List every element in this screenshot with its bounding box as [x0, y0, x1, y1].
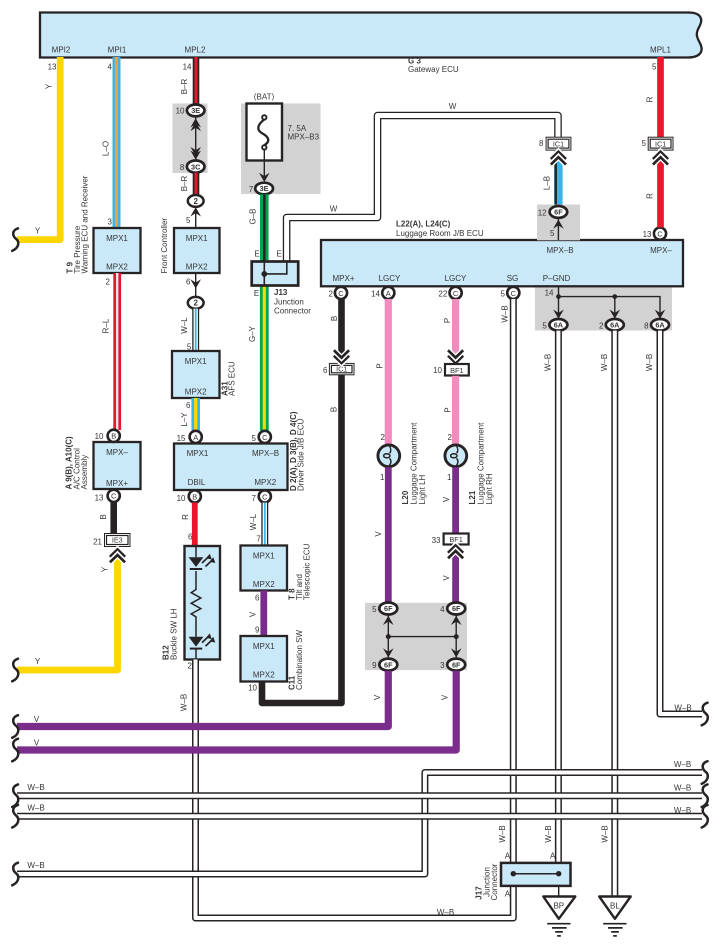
svg-text:L–O: L–O [102, 141, 111, 156]
svg-text:P: P [376, 363, 385, 368]
wire R from MPL1 pin 5 to IC1 pin 5 [645, 57, 660, 138]
svg-text:W–B: W–B [601, 825, 610, 842]
svg-text:MPX2: MPX2 [253, 580, 275, 589]
wire W-B from 6A pin 5 to J17 [544, 331, 559, 863]
svg-text:BP: BP [553, 902, 564, 911]
svg-text:MPI2: MPI2 [52, 46, 71, 55]
svg-text:2: 2 [188, 662, 193, 671]
wire V from BF1 pin 33 to 6F pin 4 [442, 545, 463, 603]
svg-text:6F: 6F [384, 660, 393, 669]
svg-text:MPX1: MPX1 [253, 552, 275, 561]
svg-text:2: 2 [106, 278, 111, 287]
pin 10 B of A/C assembly [95, 430, 120, 442]
svg-text:⟨BAT⟩: ⟨BAT⟩ [253, 93, 274, 102]
svg-text:21: 21 [93, 538, 102, 547]
svg-text:B: B [192, 492, 197, 501]
ECU A9/A10 A/C Control Assembly [65, 436, 141, 490]
svg-text:C: C [262, 433, 268, 442]
svg-text:3E: 3E [191, 106, 200, 115]
svg-text:10: 10 [248, 684, 257, 693]
svg-text:10: 10 [177, 494, 186, 503]
wire W-B elbow to right and left breaks [12, 760, 708, 885]
svg-text:5: 5 [550, 229, 555, 238]
svg-text:V: V [374, 531, 383, 537]
wire Y from IE3 to left break [12, 549, 124, 681]
svg-text:MPX1: MPX1 [187, 449, 209, 458]
svg-text:3: 3 [440, 661, 445, 670]
wire W from J13 to IC1 pin 8 [287, 102, 558, 262]
ECU A31 AFS ECU [172, 351, 237, 398]
ECU T8 Tilt and Telescopic ECU [241, 543, 312, 600]
svg-text:AFS ECU: AFS ECU [228, 361, 237, 396]
svg-text:10: 10 [176, 107, 185, 116]
svg-text:IE3: IE3 [112, 536, 123, 545]
svg-text:W–B: W–B [674, 784, 691, 793]
svg-text:W: W [330, 205, 338, 214]
svg-text:4: 4 [440, 605, 445, 614]
svg-text:14: 14 [183, 63, 192, 72]
switch C11 Combination SW [241, 630, 305, 690]
svg-text:MPX–: MPX– [106, 448, 128, 457]
wire W-B from 6A pin 2 to ground BL [600, 331, 615, 897]
svg-text:5: 5 [372, 605, 377, 614]
svg-text:BF1: BF1 [450, 366, 464, 375]
svg-text:MPX+: MPX+ [106, 479, 128, 488]
svg-text:SG: SG [507, 274, 519, 283]
link with arrows between 3E and 3C [190, 117, 201, 160]
svg-text:V: V [442, 496, 451, 502]
svg-text:MPX1: MPX1 [106, 234, 128, 243]
svg-text:6: 6 [186, 278, 191, 287]
svg-text:MPX2: MPX2 [186, 263, 208, 272]
svg-text:A: A [505, 890, 511, 899]
wire B-R from 3C to circle 2 [180, 173, 196, 196]
connector 6A pin 2 [599, 319, 624, 331]
svg-text:14: 14 [545, 289, 554, 298]
svg-text:5: 5 [252, 434, 257, 443]
svg-text:BL: BL [610, 902, 620, 911]
svg-text:2: 2 [599, 322, 604, 331]
svg-text:W–B: W–B [437, 908, 454, 917]
svg-text:6: 6 [186, 401, 191, 410]
svg-text:Gateway ECU: Gateway ECU [408, 65, 459, 74]
junction block 6F gray panel [365, 603, 467, 670]
svg-text:Connector: Connector [274, 307, 311, 316]
svg-text:E: E [254, 289, 259, 298]
svg-text:W: W [449, 102, 457, 111]
svg-text:W–B: W–B [645, 354, 654, 371]
svg-text:MPI1: MPI1 [108, 46, 127, 55]
connector 3E pin 10 [176, 105, 205, 117]
svg-text:R: R [645, 96, 654, 102]
wire P from LGCY pin 14 to lamp L20 [376, 299, 389, 444]
wire R from IC1 pin 5 to Luggage pin 13 [645, 151, 667, 228]
link from Front Controller pin 6 to circle 2 lower [186, 273, 201, 296]
svg-text:W–L: W–L [249, 513, 258, 530]
svg-text:W–B: W–B [544, 354, 553, 371]
svg-text:L–B: L–B [542, 176, 551, 190]
ECU T9 Tire Pressure Warning ECU and Receiver [66, 175, 141, 273]
svg-text:IC1: IC1 [553, 139, 564, 148]
ECU D2/D3/D4 Driver Side J/B ECU [174, 411, 306, 491]
wire W-B from 6A pin 8 to right break [645, 331, 708, 726]
svg-text:C: C [262, 492, 268, 501]
wire R from DBIL pin 10 to Buckle SW [181, 503, 195, 547]
svg-text:2: 2 [448, 433, 453, 442]
svg-text:3E: 3E [260, 184, 269, 193]
svg-text:MPX1: MPX1 [186, 234, 208, 243]
wire G-B from 3E to J13 [248, 194, 264, 262]
svg-text:W–B: W–B [674, 760, 691, 769]
svg-text:1: 1 [447, 473, 452, 482]
svg-text:6: 6 [323, 366, 328, 375]
connector IC1 pin 6 [323, 363, 354, 375]
wire B-R from MPL2 pin 14 to connector 3E [180, 57, 196, 105]
link 6F pin 12 to Luggage MPX-B pin 5 [550, 218, 564, 240]
svg-text:A: A [193, 433, 198, 442]
connector 6A pin 5 [542, 319, 567, 331]
svg-text:L–Y: L–Y [180, 412, 189, 427]
svg-text:Connector: Connector [490, 863, 499, 900]
svg-text:L22(A), L24(C): L22(A), L24(C) [396, 220, 451, 229]
svg-text:9: 9 [372, 661, 377, 670]
wire V from 6F pin 9 to left break [12, 671, 388, 738]
svg-text:W–B: W–B [179, 694, 188, 711]
svg-text:2: 2 [193, 299, 198, 308]
svg-text:W–B: W–B [674, 806, 691, 815]
svg-text:MPX–B3: MPX–B3 [288, 133, 320, 142]
wire V from T8 pin 6 to C11 pin 9 [249, 591, 264, 637]
svg-text:Light LH: Light LH [418, 474, 427, 504]
pin 22 C Luggage LGCY [438, 287, 461, 299]
svg-text:V: V [34, 739, 40, 748]
svg-text:C: C [453, 289, 459, 298]
svg-text:MPX+: MPX+ [332, 274, 354, 283]
connector IC1 pin 8 [539, 137, 571, 150]
wire L-O from MPI1 pin 4 to T9 [102, 57, 117, 228]
P-GND link from pin 14 to 6A connectors [545, 286, 666, 319]
wire L-B from 6F pin 12 to IC1 pin 8 [542, 151, 565, 206]
connector 3E pin 7 [249, 183, 273, 195]
pin 13 C of A/C assembly [95, 490, 120, 503]
svg-text:5: 5 [652, 63, 657, 72]
svg-text:V: V [442, 575, 451, 581]
fuse MPX-B3 7.5A [247, 93, 320, 161]
svg-text:Light RH: Light RH [485, 473, 494, 504]
ground BL [599, 897, 631, 936]
svg-text:W–B: W–B [501, 305, 510, 322]
wire W-L from MPX2 pin 7 to Tilt ECU [249, 503, 265, 546]
svg-text:V: V [441, 694, 450, 700]
svg-text:B–R: B–R [180, 175, 189, 191]
svg-text:G–Y: G–Y [248, 325, 257, 342]
connector 6F pin 3 [440, 659, 465, 671]
svg-text:B–R: B–R [180, 78, 189, 94]
svg-text:P: P [443, 318, 452, 323]
svg-text:W–L: W–L [180, 317, 189, 334]
svg-text:7: 7 [249, 185, 254, 194]
connector 6F pin 9 [372, 659, 397, 671]
svg-text:6A: 6A [610, 321, 620, 330]
svg-text:W–B: W–B [544, 825, 553, 842]
svg-text:Y: Y [35, 227, 41, 236]
svg-text:5: 5 [501, 290, 506, 299]
lamp L20 Luggage Compartment Light LH [378, 422, 427, 505]
wire W-B from Buckle SW pin 2 to J17 [179, 660, 513, 919]
wire W-B full width upper [12, 783, 708, 807]
connector 6F pin 12 [538, 206, 568, 218]
svg-text:B: B [329, 407, 338, 412]
svg-text:MPX–B: MPX–B [252, 449, 279, 458]
connector IC1 pin 5 [642, 137, 673, 150]
svg-text:Assembly: Assembly [80, 455, 89, 490]
svg-text:13: 13 [48, 63, 57, 72]
pin 7 C of Driver Side J/B ECU [252, 490, 271, 503]
svg-text:A: A [386, 289, 391, 298]
svg-text:13: 13 [643, 230, 652, 239]
svg-text:33: 33 [432, 536, 441, 545]
ECU G3 Gateway top bus bar [40, 13, 702, 75]
wire Y from MPI2 pin 13 to left break [12, 57, 60, 251]
svg-text:6A: 6A [554, 321, 564, 330]
svg-text:MPX2: MPX2 [106, 263, 128, 272]
svg-text:C: C [657, 230, 663, 239]
svg-text:8: 8 [644, 322, 649, 331]
connector 6F pin 4 [440, 603, 465, 615]
svg-text:1: 1 [380, 473, 385, 482]
svg-text:8: 8 [539, 139, 544, 148]
wire B from A/C pin 13 to IE3 [99, 502, 114, 534]
svg-text:W–B: W–B [600, 354, 609, 371]
svg-text:DBIL: DBIL [188, 478, 206, 487]
svg-text:MPX2: MPX2 [185, 388, 207, 397]
svg-text:B: B [330, 316, 339, 321]
6F internal links with arrows and junction dots [383, 615, 462, 659]
link from fuse to connector 3E pin 7 [259, 150, 270, 183]
connector 6F pin 5 [372, 603, 397, 615]
pin 2 C Luggage MPX+ [329, 287, 348, 299]
svg-text:9: 9 [255, 626, 260, 635]
svg-text:Warning ECU and Receiver: Warning ECU and Receiver [81, 175, 90, 273]
svg-text:MPX1: MPX1 [185, 357, 207, 366]
svg-text:15: 15 [177, 434, 186, 443]
svg-text:W–B: W–B [27, 861, 44, 870]
connector 6F pin 12 gray panel [537, 205, 580, 241]
svg-text:10: 10 [95, 432, 104, 441]
pin 15 A of Driver Side J/B ECU [177, 431, 202, 443]
wire G-Y from J13 to Driver J/B pin 5 [248, 286, 264, 431]
svg-text:2: 2 [381, 433, 386, 442]
svg-text:W–B: W–B [27, 783, 44, 792]
svg-text:Y: Y [101, 566, 110, 572]
svg-text:4: 4 [108, 63, 113, 72]
wire V from 6F pin 3 to left break [12, 671, 456, 762]
svg-text:6: 6 [255, 594, 260, 603]
svg-text:R: R [181, 514, 190, 520]
svg-text:2: 2 [193, 197, 198, 206]
pin 10 B of Driver Side J/B ECU [177, 490, 201, 503]
svg-text:MPX2: MPX2 [254, 478, 276, 487]
junction connector J13 [252, 250, 312, 316]
wire B from C11 pin 10 to IC1 pin 6 [248, 375, 341, 703]
svg-text:6A: 6A [655, 321, 665, 330]
link to Front Controller pin 5 [186, 207, 201, 228]
svg-text:LGCY: LGCY [445, 274, 467, 283]
svg-text:C: C [338, 289, 344, 298]
svg-text:MPX2: MPX2 [253, 671, 275, 680]
svg-text:W–B: W–B [498, 825, 507, 842]
svg-text:MPX–B: MPX–B [546, 246, 573, 255]
svg-text:2: 2 [329, 290, 334, 299]
svg-text:Telescopic ECU: Telescopic ECU [303, 543, 312, 600]
svg-text:5: 5 [642, 139, 647, 148]
switch B12 Buckle SW LH [162, 546, 221, 660]
svg-text:Y: Y [35, 657, 41, 666]
connector IE3 pin 21 [93, 534, 130, 547]
junction block 3E/3C gray panel [173, 104, 208, 174]
connector BF1 pin 33 [432, 534, 469, 546]
svg-text:C: C [511, 289, 517, 298]
svg-text:MPL2: MPL2 [185, 46, 206, 55]
svg-text:LGCY: LGCY [379, 274, 401, 283]
svg-text:12: 12 [538, 209, 547, 218]
svg-text:V: V [249, 611, 258, 617]
svg-text:B: B [111, 432, 116, 441]
connector 3C pin 8 [180, 161, 205, 173]
svg-text:Buckle SW LH: Buckle SW LH [170, 608, 179, 660]
svg-text:5: 5 [542, 322, 547, 331]
wire P from BF1 pin 10 to lamp L21 [443, 376, 455, 444]
svg-text:MPX1: MPX1 [253, 642, 275, 651]
wire W-L from circle 2 to AFS ECU [180, 309, 196, 352]
svg-text:Driver Side J/B ECU: Driver Side J/B ECU [297, 418, 306, 491]
pin 5 C Luggage SG [501, 287, 520, 299]
ground BP [543, 886, 575, 936]
wire B from Luggage MPX+ pin 2 to IC1 pin 6 [330, 299, 348, 364]
svg-text:Combination SW: Combination SW [295, 630, 304, 690]
P-GND ground network gray panel [535, 288, 672, 331]
svg-text:13: 13 [95, 494, 104, 503]
svg-text:R–L: R–L [102, 318, 111, 333]
fuse MPX-B3 7.5A gray panel [241, 104, 321, 195]
svg-text:A: A [550, 852, 556, 861]
wire V from lamp L20 to 6F pin 5 [374, 467, 388, 602]
pin 5 C of Driver Side J/B ECU [252, 431, 271, 443]
svg-text:C: C [111, 492, 117, 501]
svg-text:8: 8 [180, 163, 185, 172]
svg-text:V: V [34, 715, 40, 724]
svg-text:IC1: IC1 [655, 139, 666, 148]
connector 6A pin 8 [644, 319, 669, 331]
svg-text:Luggage Room J/B ECU: Luggage Room J/B ECU [396, 229, 484, 238]
ECU Front Controller [160, 218, 220, 274]
connector circle 2 upper [188, 195, 204, 207]
svg-text:MPL1: MPL1 [650, 46, 671, 55]
wire W-B from SG pin 5 to J17 [498, 299, 514, 863]
svg-text:B: B [99, 514, 108, 519]
lamp L21 Luggage Compartment Light RH [445, 422, 494, 505]
wire L-Y from AFS ECU pin 6 to Driver J/B pin 15 [180, 398, 196, 431]
svg-text:22: 22 [438, 290, 447, 299]
svg-text:3: 3 [108, 218, 113, 227]
svg-text:V: V [373, 694, 382, 700]
svg-text:J13: J13 [274, 288, 288, 297]
pin 14 A Luggage LGCY [371, 287, 394, 299]
svg-text:7: 7 [252, 494, 257, 503]
svg-text:Y: Y [44, 83, 53, 89]
connector BF1 pin 10 [433, 364, 469, 376]
svg-text:5: 5 [186, 216, 191, 225]
svg-text:10: 10 [433, 366, 442, 375]
svg-text:6F: 6F [452, 604, 461, 613]
svg-text:Junction: Junction [274, 297, 304, 306]
wire V from lamp L21 to BF1 pin 33 [442, 467, 456, 533]
svg-text:R: R [645, 193, 654, 199]
svg-text:E: E [254, 250, 259, 259]
svg-text:E: E [277, 250, 282, 259]
svg-text:6F: 6F [554, 208, 563, 217]
svg-text:W–B: W–B [674, 704, 691, 713]
svg-text:3C: 3C [191, 162, 201, 171]
svg-text:6F: 6F [384, 604, 393, 613]
svg-text:G–B: G–B [248, 208, 257, 224]
pin 13 C Luggage MPX- [643, 228, 667, 240]
svg-text:6F: 6F [452, 660, 461, 669]
svg-text:6: 6 [188, 533, 193, 542]
svg-text:Front Controller: Front Controller [160, 218, 169, 274]
connector circle 2 lower [188, 297, 204, 309]
ECU L22/L24 Luggage Room J/B ECU [321, 220, 683, 287]
junction connector J17 [475, 852, 571, 901]
svg-text:14: 14 [371, 290, 380, 299]
svg-text:P–GND: P–GND [543, 274, 571, 283]
svg-text:A: A [505, 852, 511, 861]
wire R-L from T9 MPX2 to A/C pin B [102, 273, 118, 430]
wire W-B full width lower [12, 804, 708, 828]
svg-text:W–B: W–B [27, 804, 44, 813]
wire P from LGCY pin 22 to BF1 pin 10 [443, 299, 463, 364]
svg-text:7: 7 [256, 535, 261, 544]
svg-text:MPX–: MPX– [650, 246, 672, 255]
svg-text:P: P [443, 407, 452, 412]
